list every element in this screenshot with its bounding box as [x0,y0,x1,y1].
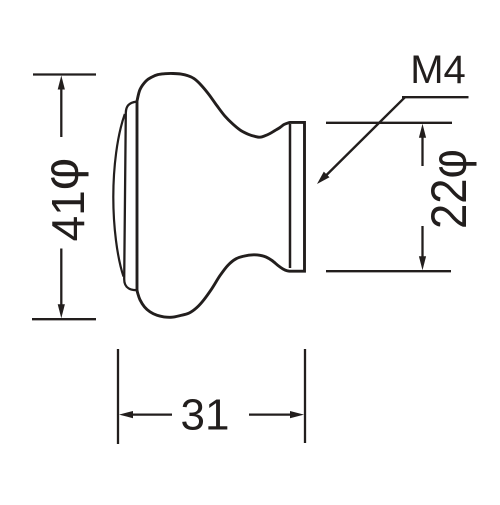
svg-text:41φ: 41φ [33,158,94,242]
svg-text:22φ: 22φ [421,149,477,229]
svg-text:31: 31 [181,391,230,440]
svg-text:M4: M4 [410,48,466,92]
